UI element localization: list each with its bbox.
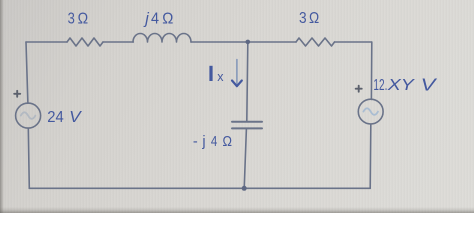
svg-text:XY: XY xyxy=(387,77,416,94)
wire right vertical lower xyxy=(369,124,372,188)
node B junction dot xyxy=(242,186,247,191)
wire bottom horizontal xyxy=(29,187,370,189)
wire top-left horizontal xyxy=(26,41,67,43)
source V2 sine xyxy=(363,108,378,115)
node A junction dot xyxy=(246,40,251,45)
source V1 circle xyxy=(16,103,41,128)
arrow current Ix xyxy=(232,60,242,87)
label R1 value 3ohm xyxy=(68,11,89,28)
wire middle vertical lower xyxy=(244,129,246,188)
source V2 circle xyxy=(358,99,383,124)
svg-text:3: 3 xyxy=(68,11,75,28)
label C1 value -j4ohm xyxy=(193,134,232,150)
wire middle vertical upper xyxy=(247,42,248,121)
svg-text:3: 3 xyxy=(299,10,307,27)
svg-text:x: x xyxy=(217,70,224,84)
wire node A to R2 xyxy=(248,41,296,43)
svg-text:Ω: Ω xyxy=(78,11,89,28)
svg-text:4: 4 xyxy=(151,11,159,28)
capacitor C1 bottom plate xyxy=(232,127,262,129)
svg-text:24: 24 xyxy=(47,109,64,126)
source V1 sine xyxy=(21,112,36,119)
svg-text:12.: 12. xyxy=(373,77,387,94)
svg-text:j: j xyxy=(143,11,149,28)
capacitor C1 top plate xyxy=(232,121,262,123)
svg-text:Ω: Ω xyxy=(162,11,173,28)
wire between R1 and L1 xyxy=(103,41,133,43)
resistor R1 3ohm zigzag xyxy=(67,38,103,46)
label current Ix xyxy=(209,66,224,84)
resistor R2 3ohm zigzag xyxy=(296,38,335,46)
wire L1 to node A xyxy=(191,41,248,43)
wire left vertical lower xyxy=(28,128,29,188)
svg-text:4: 4 xyxy=(211,134,217,150)
inductor L1 j4ohm humps xyxy=(133,34,191,43)
source V1 plus sign xyxy=(14,91,20,97)
svg-text:j: j xyxy=(201,134,205,150)
svg-text:V: V xyxy=(421,74,439,94)
label R2 value 3ohm xyxy=(299,10,319,27)
label L1 value j4ohm xyxy=(143,11,173,28)
svg-text:-: - xyxy=(193,134,198,150)
wire right vertical upper xyxy=(370,42,372,99)
label V2 value 12.XY V xyxy=(373,74,438,94)
source V2 plus sign xyxy=(356,86,362,92)
svg-text:V: V xyxy=(69,109,82,126)
svg-text:Ω: Ω xyxy=(223,134,233,150)
svg-text:Ω: Ω xyxy=(309,10,319,27)
wire left vertical upper xyxy=(26,42,28,103)
label V1 value 24V xyxy=(47,109,82,126)
wire R2 to top-right corner xyxy=(335,41,372,43)
